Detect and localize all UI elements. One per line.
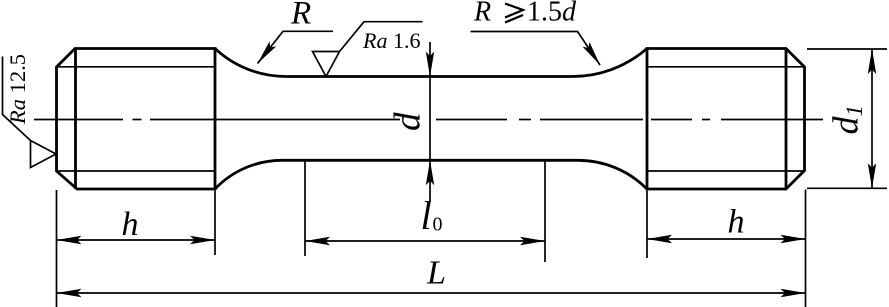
dimension h left — [57, 239, 216, 241]
right head thread line bottom — [647, 170, 804, 172]
extension line left end — [56, 190, 58, 307]
label R leader — [258, 31, 334, 63]
left head thread line top — [57, 66, 215, 68]
svg-text:Ra 12.5: Ra 12.5 — [5, 54, 30, 125]
svg-text:0: 0 — [433, 214, 443, 236]
gauge section bottom profile with fillets — [215, 160, 647, 189]
dimension d1 line — [871, 49, 873, 188]
right head inner vertical line — [785, 49, 788, 190]
svg-text:1.5d: 1.5d — [527, 0, 577, 28]
left head thread line bottom — [57, 170, 215, 172]
svg-text:R: R — [290, 0, 311, 32]
left head outline — [57, 49, 216, 190]
svg-text:h: h — [728, 204, 745, 241]
roughness symbol Ra 12.5 — [3, 57, 57, 168]
extension line left head right — [214, 191, 216, 256]
dimension d1 extension lines — [807, 48, 887, 50]
dimension h right — [647, 238, 806, 240]
dimension l0 — [305, 240, 545, 242]
svg-text:Ra 1.6: Ra 1.6 — [362, 28, 420, 53]
extension line right head left — [646, 191, 648, 259]
dimension d vertical line — [429, 42, 431, 202]
svg-text:d: d — [388, 112, 429, 131]
svg-text:l: l — [421, 193, 432, 238]
extension line l0 left — [304, 161, 306, 256]
extension line right end — [805, 190, 807, 307]
extension line l0 right — [544, 161, 546, 262]
svg-text:d1: d1 — [826, 105, 868, 135]
left head inner vertical line — [74, 49, 77, 190]
right head thread line top — [647, 66, 804, 68]
centerline — [34, 119, 823, 121]
dimension L — [57, 292, 806, 294]
right head outline — [647, 49, 805, 190]
gauge section top profile with fillets — [215, 49, 647, 77]
label R >= 1.5d leader — [471, 32, 601, 66]
svg-text:L: L — [426, 255, 446, 292]
svg-text:R: R — [473, 0, 491, 28]
roughness symbol Ra 1.6 — [313, 22, 423, 77]
svg-text:h: h — [122, 206, 139, 243]
